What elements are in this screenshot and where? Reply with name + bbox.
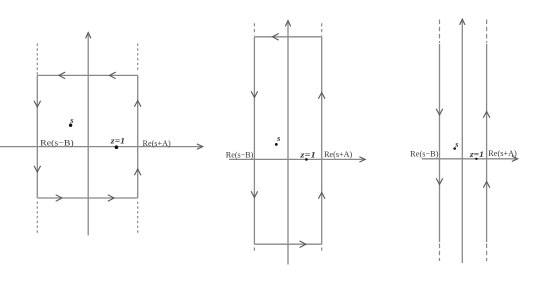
wire imaginary axis P3: [461, 21, 463, 263]
svg-text:Re(s−B): Re(s−B): [40, 139, 74, 148]
wire contour top edge P2: [254, 36, 321, 38]
wire dashed bottom-left P2: [253, 248, 255, 254]
arrowhead left edge down 2: [34, 166, 41, 172]
wire right contour dashed bottom P3: [486, 244, 488, 262]
svg-text:Re(s−B): Re(s−B): [226, 151, 254, 160]
arrowhead left edge down 1: [34, 101, 41, 107]
wire dashed bottom-right P1: [137, 202, 139, 235]
wire dashed bottom-right P2: [321, 248, 323, 254]
svg-text:Re(s+A): Re(s+A): [324, 150, 352, 159]
arrowhead imaginary axis P2 up: [285, 21, 290, 27]
node s P2: [275, 143, 278, 146]
arrowhead right edge up 2 P2: [318, 193, 325, 199]
wire left contour dashed top P3: [439, 20, 441, 44]
wire contour right edge P1: [137, 75, 139, 198]
svg-text:z=1: z=1: [469, 149, 484, 159]
wire dashed top-right P2: [321, 23, 323, 35]
svg-text:Re(s+A): Re(s+A): [143, 139, 171, 148]
svg-text:Re(s−B): Re(s−B): [410, 150, 439, 159]
arrowhead real axis P2 right: [359, 157, 365, 162]
arrowhead left contour down 1 P3: [436, 109, 443, 115]
arrowhead right edge up 2: [134, 169, 141, 175]
wire imaginary axis P2: [287, 23, 289, 265]
svg-text:s: s: [454, 140, 458, 149]
wire contour left edge P2: [253, 37, 255, 244]
wire real axis P1: [0, 146, 201, 148]
wire contour bottom edge P1: [37, 197, 137, 199]
wire left contour solid P3: [439, 44, 441, 242]
node z=1 P3: [475, 158, 477, 160]
arrowhead imaginary axis P3 up: [460, 19, 465, 25]
wire real axis P3: [422, 158, 516, 160]
svg-text:z=1: z=1: [110, 136, 125, 146]
arrowhead real axis P1 right: [197, 144, 203, 149]
node z=1 P2: [305, 158, 308, 161]
arrowhead right edge up 1 P2: [318, 93, 325, 99]
wire dashed top-right P1: [137, 44, 139, 72]
svg-text:s: s: [276, 134, 280, 143]
arrowhead bottom edge right 2: [108, 195, 114, 202]
wire contour left edge P1: [36, 75, 38, 198]
arrowhead right contour up 2 P3: [483, 182, 490, 188]
wire left contour dashed bottom P3: [439, 244, 441, 262]
arrowhead right contour up 1 P3: [483, 112, 490, 118]
wire contour top edge P1: [37, 74, 137, 76]
wire contour right edge P2: [321, 37, 323, 244]
svg-text:Re(s+A): Re(s+A): [488, 149, 517, 158]
wire imaginary axis P1: [87, 35, 89, 236]
wire real axis P2: [229, 158, 364, 160]
arrowhead left edge down 1 P2: [251, 91, 258, 97]
node z=1 P1: [115, 145, 119, 149]
wire contour bottom edge P2: [254, 243, 321, 245]
arrowhead real axis P3 right: [512, 156, 518, 161]
svg-text:z=1: z=1: [299, 149, 316, 159]
wire right contour solid P3: [486, 44, 488, 242]
arrowhead left edge down 2 P2: [251, 191, 258, 197]
wire dashed bottom-left P1: [36, 202, 38, 235]
arrowhead top edge left 1: [59, 72, 65, 79]
wire right contour dashed top P3: [486, 20, 488, 44]
arrowhead top edge left P2: [273, 34, 279, 41]
arrowhead right edge up 1: [134, 101, 141, 107]
arrowhead left contour down 2 P3: [436, 178, 443, 184]
wire dashed top-left P2: [253, 23, 255, 35]
arrowhead top edge left 2: [110, 72, 116, 79]
node s P3: [453, 147, 456, 150]
arrowhead bottom edge right P2: [300, 241, 306, 248]
node s P1: [69, 124, 72, 127]
svg-text:s: s: [69, 115, 74, 125]
wire dashed top-left P1: [36, 44, 38, 75]
arrowhead imaginary axis P1 up: [86, 33, 91, 39]
arrowhead bottom edge right 1: [56, 195, 62, 202]
